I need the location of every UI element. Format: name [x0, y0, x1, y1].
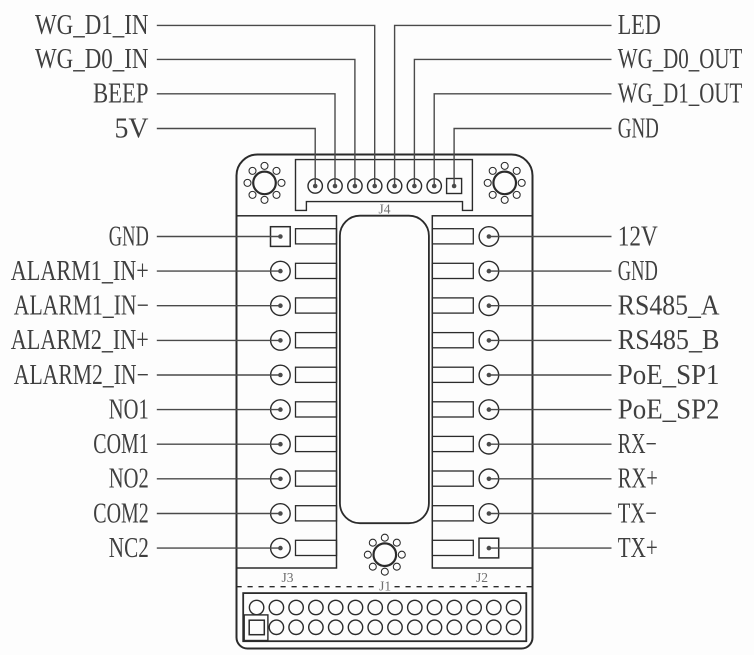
board outline [237, 155, 533, 649]
hole J1 top row 2 [269, 600, 283, 614]
pin J3-8 (NO2) [271, 469, 291, 489]
terminal block J2 body [432, 216, 532, 568]
hole J1 bottom row 13 [487, 620, 501, 634]
hole J1 bottom row 12 [467, 620, 481, 634]
pin J3-7 (COM1) [271, 434, 291, 454]
wire TX- (right) [489, 513, 612, 515]
pin J2-5 (PoE_SP1) [479, 365, 499, 385]
central cutout slot [340, 216, 429, 524]
slot J2-10 [432, 540, 473, 555]
hole J1 bottom row 9 [408, 620, 422, 634]
svg-text:GND: GND [618, 113, 659, 144]
net label COM1 [93, 429, 149, 460]
svg-text:COM1: COM1 [93, 429, 149, 460]
pin J2-8 (RX+) [479, 469, 499, 489]
slot J2-6 [432, 402, 473, 417]
hole J1 bottom row 3 [289, 620, 303, 634]
pin J4-4 [368, 179, 382, 193]
svg-text:LED: LED [618, 10, 661, 41]
net label TX+ (right) [618, 533, 658, 564]
svg-text:J2: J2 [476, 570, 488, 585]
pin J3-10 (NC2) [271, 538, 291, 558]
pin J2-2 (GND) [479, 261, 499, 281]
net label RX- (right) [618, 429, 657, 460]
wire PoE_SP2 (right) [489, 409, 612, 411]
svg-text:NO2: NO2 [109, 464, 149, 495]
hole J1 top row 12 [467, 600, 481, 614]
pin J2-7 (RX−) [479, 434, 499, 454]
slot J3-1 [296, 229, 337, 244]
svg-text:BEEP: BEEP [93, 79, 149, 110]
svg-text:WG_D0_IN: WG_D0_IN [35, 44, 149, 75]
hole J1 top row 9 [408, 600, 422, 614]
net label RS485_B (right) [618, 325, 720, 356]
dashed silkscreen separator [237, 586, 533, 588]
net label GND (right) [618, 256, 658, 287]
svg-text:TX+: TX+ [618, 533, 658, 564]
pin J3-2 (ALARM1_IN+) [271, 261, 291, 281]
wire NO2 [157, 478, 281, 480]
mounting hole bottom-center near J1 [364, 534, 405, 575]
pin J4-8 [447, 179, 462, 194]
svg-text:WG_D1_OUT: WG_D1_OUT [618, 79, 743, 110]
svg-text:J4: J4 [378, 202, 390, 217]
hole J1 bottom row 10 [427, 620, 441, 634]
svg-text:ALARM2_IN−: ALARM2_IN− [14, 360, 149, 391]
net label NC2 [109, 533, 149, 564]
slot J3-10 [296, 540, 337, 555]
hole J1 top row 10 [427, 600, 441, 614]
mounting hole top-left [244, 162, 285, 203]
hole J1 bottom row 4 [309, 620, 323, 634]
net label GND (right) [618, 113, 659, 144]
net label RX+ (right) [618, 464, 658, 495]
wire COM1 [157, 443, 281, 445]
wire WG_D1_IN [157, 25, 375, 186]
terminal block J3 body [237, 216, 337, 568]
slot J2-4 [432, 333, 473, 348]
wire RS485_A (right) [489, 305, 612, 307]
svg-text:PoE_SP2: PoE_SP2 [618, 394, 720, 425]
hole J1 top row 14 [506, 600, 520, 614]
pin J4-3 [348, 179, 362, 193]
wire NO1 [157, 409, 281, 411]
net label TX- (right) [618, 498, 657, 529]
mounting hole top-right [484, 162, 525, 203]
slot J2-8 [432, 471, 473, 486]
svg-text:ALARM1_IN+: ALARM1_IN+ [11, 256, 149, 287]
net label ALARM1_IN- [14, 291, 149, 322]
wire GND (right) [489, 270, 612, 272]
net label RS485_A (right) [618, 291, 720, 322]
net label ALARM2_IN+ [11, 325, 149, 356]
net label 5V [115, 113, 149, 144]
terminal block J2 label [476, 570, 488, 585]
wire RS485_B (right) [489, 339, 612, 341]
slot J3-7 [296, 436, 337, 451]
svg-text:COM2: COM2 [93, 498, 149, 529]
pin J4-1 [308, 179, 322, 193]
slot J3-9 [296, 506, 337, 521]
wire NC2 [157, 547, 281, 549]
pin J4-2 [328, 179, 342, 193]
svg-text:WG_D1_IN: WG_D1_IN [35, 10, 149, 41]
connector J4 label [378, 202, 390, 217]
net label 12V (right) [618, 221, 658, 252]
wire RX- (right) [489, 443, 612, 445]
svg-text:ALARM1_IN−: ALARM1_IN− [14, 291, 149, 322]
wire WG_D0_IN [157, 59, 355, 186]
net label PoE_SP2 (right) [618, 394, 720, 425]
slot J3-3 [296, 298, 337, 313]
pin J2-3 (RS485_A) [479, 296, 499, 316]
svg-text:RX−: RX− [618, 429, 657, 460]
terminal block J3 label [281, 570, 293, 585]
wire ALARM2_IN- [157, 374, 281, 376]
wire ALARM1_IN+ [157, 270, 281, 272]
connector J4 outline [296, 160, 473, 211]
hole J1 top row 1 [249, 600, 263, 614]
wire WG_D1_OUT (right) [434, 94, 611, 186]
net label NO1 [109, 394, 149, 425]
wire 12V (right) [489, 236, 612, 238]
hole J1 bottom row 5 [329, 620, 343, 634]
svg-text:NC2: NC2 [109, 533, 149, 564]
slot J2-3 [432, 298, 473, 313]
svg-text:RS485_A: RS485_A [618, 291, 720, 322]
pin J2-4 (RS485_B) [479, 331, 499, 351]
wire COM2 [157, 513, 281, 515]
svg-text:J3: J3 [281, 570, 293, 585]
pin 1 square J1 [249, 620, 264, 635]
wire ALARM2_IN+ [157, 339, 281, 341]
net label BEEP [93, 79, 149, 110]
pin J3-5 (ALARM2_IN−) [271, 365, 291, 385]
hole J1 top row 11 [447, 600, 461, 614]
svg-text:5V: 5V [115, 113, 149, 144]
hole J1 top row 4 [309, 600, 323, 614]
pin J4-7 [427, 179, 441, 193]
slot J2-1 [432, 229, 473, 244]
slot J3-4 [296, 333, 337, 348]
slot J3-2 [296, 263, 337, 278]
svg-text:GND: GND [109, 221, 149, 252]
pin J4-6 [407, 179, 421, 193]
pin J4-5 [387, 179, 401, 193]
hole J1 bottom row 6 [348, 620, 362, 634]
svg-text:GND: GND [618, 256, 658, 287]
svg-text:RS485_B: RS485_B [618, 325, 720, 356]
svg-text:RX+: RX+ [618, 464, 658, 495]
slot J2-7 [432, 436, 473, 451]
net label WG_D1_IN [35, 10, 149, 41]
wire TX+ (right) [489, 547, 612, 549]
net label GND [109, 221, 149, 252]
slot J2-5 [432, 367, 473, 382]
svg-text:J1: J1 [379, 579, 391, 594]
hole J1 top row 7 [368, 600, 382, 614]
hole J1 bottom row 2 [269, 620, 283, 634]
wire BEEP [157, 94, 335, 186]
hole J1 top row 13 [487, 600, 501, 614]
pin J3-4 (ALARM2_IN+) [271, 331, 291, 351]
wire ALARM1_IN- [157, 305, 281, 307]
slot J3-6 [296, 402, 337, 417]
net label COM2 [93, 498, 149, 529]
hole J1 bottom row 8 [388, 620, 402, 634]
wire GND [157, 236, 281, 238]
svg-text:WG_D0_OUT: WG_D0_OUT [618, 44, 743, 75]
hole J1 top row 8 [388, 600, 402, 614]
pin J3-9 (COM2) [271, 504, 291, 524]
connector J1 label [379, 579, 391, 594]
svg-text:NO1: NO1 [109, 394, 149, 425]
wire LED (right) [395, 25, 612, 186]
hole J1 top row 5 [329, 600, 343, 614]
wire PoE_SP1 (right) [489, 374, 612, 376]
hole J1 bottom row 7 [368, 620, 382, 634]
net label ALARM2_IN- [14, 360, 149, 391]
pin J3-1 (GND) [271, 227, 291, 247]
wire 5V [157, 129, 315, 187]
hole J1 bottom row 14 [506, 620, 520, 634]
slot J2-2 [432, 263, 473, 278]
net label WG_D1_OUT (right) [618, 79, 743, 110]
net label NO2 [109, 464, 149, 495]
svg-text:12V: 12V [618, 221, 658, 252]
net label ALARM1_IN+ [11, 256, 149, 287]
wire GND (right) [454, 129, 611, 187]
pin J2-1 (12V) [479, 227, 499, 247]
pin J2-9 (TX−) [479, 504, 499, 524]
wire WG_D0_OUT (right) [414, 59, 611, 186]
pin-1 marker box J1 [244, 615, 268, 641]
slot J3-8 [296, 471, 337, 486]
pin J3-3 (ALARM1_IN−) [271, 296, 291, 316]
connector J1 housing [243, 593, 526, 641]
svg-text:PoE_SP1: PoE_SP1 [618, 360, 720, 391]
slot J3-5 [296, 367, 337, 382]
net label PoE_SP1 (right) [618, 360, 720, 391]
net label LED (right) [618, 10, 661, 41]
hole J1 bottom row 11 [447, 620, 461, 634]
wire RX+ (right) [489, 478, 612, 480]
slot J2-9 [432, 506, 473, 521]
pin J2-10 (TX+) [479, 538, 499, 558]
net label WG_D0_OUT (right) [618, 44, 743, 75]
pin J2-6 (PoE_SP2) [479, 400, 499, 420]
hole J1 top row 6 [348, 600, 362, 614]
net label WG_D0_IN [35, 44, 149, 75]
svg-text:TX−: TX− [618, 498, 657, 529]
hole J1 top row 3 [289, 600, 303, 614]
pin J3-6 (NO1) [271, 400, 291, 420]
svg-text:ALARM2_IN+: ALARM2_IN+ [11, 325, 149, 356]
